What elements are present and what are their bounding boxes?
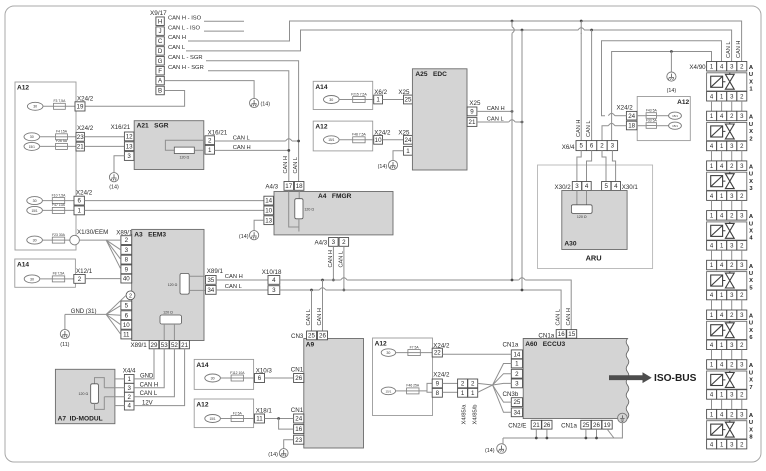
- svg-text:15/1: 15/1: [29, 145, 35, 149]
- svg-text:23: 23: [77, 134, 84, 141]
- svg-text:19: 19: [604, 422, 611, 429]
- component A12 (X24/2-10 fuse box): [313, 121, 373, 151]
- svg-text:8: 8: [125, 257, 129, 264]
- svg-text:13: 13: [126, 143, 133, 150]
- fuse F112 10A: [231, 375, 243, 381]
- pin X24/2-21: [76, 142, 84, 151]
- valve AUX7 body: [707, 371, 747, 389]
- svg-text:CAN H: CAN H: [168, 35, 186, 41]
- pin X24/2-9: [432, 379, 442, 388]
- wire A21-3 to ground: [114, 156, 124, 173]
- svg-text:16: 16: [295, 426, 302, 433]
- fuse F21 7.5A: [353, 97, 365, 103]
- svg-text:A12: A12: [17, 85, 29, 92]
- component A14 (X10/3 fuse box): [194, 359, 253, 389]
- svg-text:25: 25: [582, 422, 589, 429]
- svg-text:B: B: [158, 88, 162, 95]
- pin X9/17-A: [156, 76, 164, 85]
- svg-text:CAN L: CAN L: [586, 121, 592, 137]
- svg-text:5: 5: [605, 183, 609, 190]
- fuse F23 30A: [52, 237, 64, 243]
- svg-text:23: 23: [295, 437, 302, 444]
- pin CN3-25: [307, 331, 317, 340]
- svg-text:2: 2: [78, 276, 82, 283]
- pin X4/4-1: [124, 375, 134, 384]
- svg-text:CAN H: CAN H: [566, 308, 572, 325]
- svg-text:ISO-BUS: ISO-BUS: [654, 373, 697, 384]
- svg-text:24: 24: [405, 137, 412, 144]
- svg-text:2: 2: [342, 239, 346, 246]
- ECU block A9: [304, 339, 364, 449]
- svg-text:F10 7,5A: F10 7,5A: [52, 193, 66, 197]
- svg-text:6: 6: [590, 143, 594, 150]
- svg-text:8: 8: [436, 390, 440, 397]
- pin CN1-24: [294, 414, 304, 423]
- fuse F33 5A: [646, 123, 656, 129]
- wire: [339, 99, 374, 101]
- wire AUX6 to AUX7: [711, 350, 713, 360]
- svg-text:21: 21: [77, 144, 84, 151]
- svg-text:2: 2: [749, 136, 752, 142]
- ground (14) below EDC: [388, 160, 397, 169]
- svg-text:D: D: [158, 48, 163, 55]
- pin X9/17-D: [156, 47, 164, 56]
- svg-text:A12: A12: [196, 402, 208, 409]
- svg-text:5: 5: [749, 285, 753, 291]
- svg-text:2: 2: [461, 381, 465, 388]
- wire X6/4-6 to X30/2-4: [587, 151, 592, 182]
- valve symbol AUX1: [725, 74, 734, 89]
- valve AUX2 body: [707, 123, 747, 141]
- wire ground tap down: [670, 52, 672, 72]
- svg-text:A25 EDC: A25 EDC: [415, 71, 447, 78]
- svg-text:4: 4: [614, 183, 618, 190]
- svg-text:2: 2: [600, 143, 604, 150]
- svg-text:X4/90: X4/90: [689, 64, 706, 71]
- valve AUX4 connector top row: [707, 211, 717, 221]
- svg-text:120 Ω: 120 Ω: [577, 215, 587, 219]
- svg-text:X: X: [749, 129, 753, 135]
- svg-text:24: 24: [295, 416, 302, 423]
- pin X30/1-4: [611, 182, 620, 191]
- pin X30/2-4: [582, 182, 591, 191]
- pin X16/21-2: [205, 136, 215, 145]
- pin X89/1-53 (bottom): [159, 341, 169, 349]
- svg-text:CN1: CN1: [291, 407, 304, 414]
- pin A4/3-10: [264, 206, 274, 215]
- wire X89/1-34 to X10/18-3: [216, 289, 268, 291]
- svg-text:30: 30: [30, 135, 34, 139]
- pin CN1-16: [294, 425, 304, 434]
- module A7 ID-MODUL: [55, 369, 115, 423]
- component A12 (X24/2 24/18 fuse box, top right): [637, 97, 690, 141]
- svg-text:U: U: [749, 72, 753, 78]
- fuse F48 7.5A: [353, 137, 365, 143]
- svg-text:26: 26: [295, 375, 302, 382]
- svg-text:CAN H: CAN H: [283, 156, 289, 173]
- wire fuse to pins 9/8 split: [419, 383, 432, 391]
- wire X4/4-1 GND to X89/1-29: [134, 349, 154, 379]
- svg-text:30: 30: [386, 351, 390, 355]
- svg-text:X24/2: X24/2: [433, 372, 450, 379]
- svg-text:CAN H - ISO: CAN H - ISO: [168, 15, 202, 21]
- svg-text:CN3b: CN3b: [503, 391, 519, 398]
- pin X24/2-8: [432, 388, 442, 397]
- svg-text:CN1: CN1: [291, 367, 304, 374]
- pin CN1-26: [294, 374, 304, 383]
- valve AUX3 connector top row: [707, 161, 717, 171]
- pin X30/2-3: [572, 182, 581, 191]
- terminal 15/1: [324, 136, 340, 144]
- svg-text:3: 3: [515, 381, 519, 388]
- solenoid coil AUX3: [711, 176, 723, 187]
- resistor 120 Ohm inside A4: [298, 192, 300, 199]
- svg-text:1: 1: [406, 148, 410, 155]
- svg-text:A4/3: A4/3: [265, 184, 278, 191]
- svg-text:CAN L: CAN L: [338, 251, 344, 267]
- wire vertical CAN H (x581) top bus to X6/4-5: [580, 20, 583, 23]
- pin CN1a-3: [511, 379, 522, 388]
- pin X89/1-52 (bottom): [170, 341, 180, 349]
- wire X25-21 CAN L to bus vertical: [477, 121, 509, 123]
- wire CN1a-19 diagonal to collector: [607, 429, 614, 438]
- wire X24/2-22 to CN1a-14: [442, 353, 511, 355]
- resistor 120 Ohm inside A21: [165, 140, 205, 150]
- wire A4/3-3 (CAN H) down to bus: [332, 246, 334, 280]
- svg-text:120 Ω: 120 Ω: [79, 392, 89, 396]
- svg-text:11: 11: [256, 416, 263, 423]
- svg-text:CN1a: CN1a: [503, 342, 519, 349]
- svg-text:A12: A12: [677, 99, 689, 106]
- pin X16/21-3: [124, 152, 133, 161]
- svg-text:(14): (14): [667, 88, 677, 94]
- svg-text:3: 3: [125, 247, 129, 254]
- svg-text:4: 4: [749, 236, 753, 242]
- svg-text:40: 40: [123, 276, 130, 283]
- svg-text:18: 18: [628, 123, 635, 130]
- svg-text:X4/4: X4/4: [123, 367, 136, 374]
- ground (14) top right: [667, 72, 676, 81]
- assembly outer box ARU: [538, 165, 653, 269]
- wire CN3-26 vertical CAN H: [321, 279, 324, 282]
- svg-text:X: X: [749, 278, 753, 284]
- svg-text:F33 5A: F33 5A: [646, 119, 658, 123]
- component A12 (X18/1 fuse box): [194, 399, 253, 428]
- pin CN1a-26: [591, 420, 601, 429]
- svg-text:CN2/E: CN2/E: [508, 422, 526, 429]
- bus CAN L main: [280, 289, 320, 291]
- svg-text:5: 5: [125, 303, 129, 310]
- svg-text:15: 15: [568, 331, 575, 338]
- terminal 15/1 (row 18): [669, 122, 682, 129]
- pin X6/4-5: [576, 141, 586, 151]
- pin X9/17-H: [156, 17, 164, 26]
- svg-text:(14): (14): [378, 164, 388, 170]
- svg-text:F215 7,5A: F215 7,5A: [351, 92, 367, 96]
- svg-text:35: 35: [207, 277, 214, 284]
- svg-text:X16/21: X16/21: [208, 129, 228, 136]
- wire A4/3-2 (CAN L) down to bus: [343, 246, 345, 290]
- wire: [220, 418, 254, 420]
- valve AUX4 body: [707, 222, 747, 240]
- pin A4/3-13: [264, 216, 274, 225]
- pin X24/2-24: [626, 111, 637, 120]
- fuse F43 5A: [646, 113, 656, 119]
- pin X6/4-2: [597, 141, 607, 151]
- svg-text:U: U: [749, 221, 753, 227]
- svg-text:120 Ω: 120 Ω: [163, 311, 173, 315]
- svg-text:18: 18: [296, 183, 303, 190]
- solenoid coil AUX8: [711, 424, 723, 435]
- solenoid coil AUX4: [711, 225, 723, 236]
- pin CN1a-16: [556, 330, 566, 339]
- svg-text:30: 30: [33, 199, 37, 203]
- svg-text:CAN L - SGR: CAN L - SGR: [168, 55, 203, 61]
- svg-text:A: A: [749, 214, 754, 220]
- wire CN1-23 to ground: [284, 440, 294, 449]
- svg-text:X24/2: X24/2: [617, 105, 634, 112]
- chassis ground at A60 corner: [618, 413, 628, 423]
- pin X25-1: [404, 146, 413, 155]
- svg-text:(14): (14): [268, 452, 278, 458]
- wire CN3-25 vertical CAN L: [310, 289, 313, 292]
- svg-text:15/1: 15/1: [385, 389, 391, 393]
- svg-text:X1/30/EEM: X1/30/EEM: [77, 229, 108, 236]
- wire X6/4-5 to X30/2-3: [577, 151, 581, 182]
- pin X89/1-11: [121, 330, 132, 339]
- pin X4/4-4: [124, 401, 134, 410]
- svg-text:A4/3: A4/3: [314, 239, 327, 246]
- fuse F10 7.5A: [52, 198, 64, 204]
- pin X89/1-10: [121, 320, 132, 329]
- pin X89/1-29 (bottom): [149, 341, 159, 349]
- svg-text:4: 4: [272, 277, 276, 284]
- wire X4/4-2 to X89/1-52: [134, 349, 174, 397]
- svg-text:22: 22: [434, 350, 441, 357]
- component A12 (left fuse box): [15, 82, 76, 250]
- svg-text:A4 FMGR: A4 FMGR: [318, 193, 352, 200]
- valve AUX7 connector bottom row: [707, 390, 717, 400]
- svg-text:30: 30: [329, 98, 333, 102]
- valve AUX1 connector top row: [707, 62, 717, 72]
- svg-text:(14): (14): [109, 184, 119, 190]
- terminal 30: [381, 349, 395, 357]
- svg-text:1: 1: [515, 361, 519, 368]
- svg-text:24: 24: [628, 113, 635, 120]
- terminal 15/1 (row3): [24, 142, 40, 150]
- svg-text:X: X: [749, 328, 753, 334]
- svg-text:X25: X25: [469, 100, 481, 107]
- wire CAN L - ISO stub: [204, 30, 244, 32]
- svg-text:F3 7,5A: F3 7,5A: [53, 99, 66, 103]
- wire X24/2-10 to X25-24: [383, 139, 404, 141]
- svg-text:120 Ω: 120 Ω: [168, 283, 178, 287]
- svg-text:A14: A14: [315, 84, 327, 91]
- svg-text:CAN H: CAN H: [225, 274, 243, 280]
- svg-text:X4/85/b: X4/85/b: [472, 405, 478, 425]
- pin CN1a-25: [581, 420, 591, 429]
- svg-text:15/1: 15/1: [31, 209, 37, 213]
- svg-text:A60 ECCU3: A60 ECCU3: [525, 341, 565, 348]
- svg-text:14: 14: [265, 198, 272, 205]
- pin CN1a-19: [602, 420, 612, 429]
- svg-text:U: U: [749, 271, 753, 277]
- svg-text:X4/85/a: X4/85/a: [462, 404, 468, 425]
- wire X4/4 stubs into A7: [115, 378, 125, 380]
- svg-text:6: 6: [749, 335, 753, 341]
- fuse F46 25A: [407, 388, 419, 394]
- wire X24/2-1 to A4-10: [84, 209, 264, 211]
- pin X6/2-1: [374, 95, 383, 104]
- pin CN1a-14: [511, 350, 522, 359]
- pin X10/18-4: [268, 276, 280, 285]
- svg-text:2: 2: [129, 294, 132, 300]
- valve AUX5 connector bottom row: [707, 290, 717, 300]
- svg-text:X30/2: X30/2: [555, 184, 572, 191]
- wire row4: [42, 200, 74, 202]
- pin X24/2-23: [76, 132, 84, 141]
- valve AUX5 body: [707, 272, 747, 290]
- valve AUX2 connector bottom row: [707, 141, 717, 151]
- wire X24/2-8 to X4/85: [442, 391, 457, 393]
- pin X9/17-G: [156, 57, 164, 66]
- svg-text:15/1: 15/1: [672, 114, 678, 118]
- pin X4/4-2: [124, 392, 134, 401]
- pin X89/1-8: [121, 255, 132, 264]
- svg-text:A30: A30: [564, 240, 576, 247]
- fuse F3 7.5A: [54, 103, 66, 109]
- fuse F26 5A: [56, 143, 68, 149]
- wire X1/30/EEM to X89/1-2 with fan: [79, 239, 121, 241]
- svg-text:F4 15A: F4 15A: [56, 130, 68, 134]
- svg-text:CAN L: CAN L: [556, 309, 562, 325]
- svg-text:21: 21: [181, 342, 188, 349]
- svg-text:A12: A12: [315, 124, 327, 131]
- svg-text:A: A: [749, 65, 754, 71]
- svg-text:1: 1: [127, 376, 131, 383]
- svg-text:U: U: [749, 321, 753, 327]
- wire GND down: [64, 314, 66, 329]
- pin X4/85/a-1: [458, 388, 468, 397]
- svg-text:X9/17: X9/17: [150, 10, 167, 17]
- svg-text:25: 25: [308, 333, 315, 340]
- valve AUX2 connector top row: [707, 111, 717, 121]
- terminal 30: [205, 374, 221, 382]
- wire X24/2-23 to A21-12: [84, 136, 124, 138]
- wire X10/3-6 to CN1-26: [265, 377, 294, 379]
- terminal 30 (row1): [27, 102, 43, 110]
- svg-text:(11): (11): [60, 342, 69, 348]
- svg-text:17: 17: [285, 183, 292, 190]
- wire X4/85 fan to CN1a/CN3b pins: [478, 383, 493, 385]
- svg-text:F8 7,5A: F8 7,5A: [53, 272, 66, 276]
- svg-text:16: 16: [558, 331, 565, 338]
- wire fan to pins 3,8,9: [106, 240, 121, 250]
- terminal 15/1: [381, 387, 395, 395]
- wire X24/2-18 to X6/4-2: [615, 125, 627, 127]
- pin X9/17-J: [156, 27, 164, 35]
- svg-text:CAN H - SGR: CAN H - SGR: [168, 65, 204, 71]
- wire X24/2-9 to X4/85: [442, 382, 457, 384]
- pin X16/21-1: [205, 145, 215, 154]
- pin X10/18-3: [268, 286, 280, 295]
- svg-text:4: 4: [585, 183, 589, 190]
- wire X6/4-3 to X30/1-4: [612, 151, 615, 182]
- svg-text:A14: A14: [196, 362, 208, 369]
- wire X4/90-1 to X6/4-3 with ground tap: [612, 52, 712, 141]
- wire: [339, 139, 374, 141]
- wire CAN H: X9/17-C to top bus, east to X4/90 pin2: [188, 21, 742, 62]
- wire X9/17-B to X24/2-19: [85, 91, 185, 107]
- svg-text:A: A: [749, 264, 754, 270]
- fuse F8 7.5A: [52, 276, 64, 282]
- svg-text:X: X: [749, 229, 753, 235]
- svg-text:A9: A9: [306, 341, 315, 348]
- ECU block A4 FMGR: [274, 192, 393, 235]
- svg-text:15/1: 15/1: [209, 417, 215, 421]
- svg-text:CAN L: CAN L: [726, 42, 732, 58]
- terminal 30: [324, 96, 340, 104]
- valve symbol AUX8: [725, 422, 734, 437]
- svg-text:A: A: [749, 164, 754, 170]
- wire X24/2-21 to A21-13: [84, 145, 124, 147]
- svg-text:A: A: [749, 314, 754, 320]
- resistor 120 Ohm lower inside A3: [160, 315, 182, 324]
- pin X25-24: [404, 135, 413, 144]
- wire row3: [40, 145, 76, 147]
- svg-text:15/1: 15/1: [328, 138, 334, 142]
- svg-text:H: H: [158, 18, 162, 25]
- ground (14) below A9: [279, 449, 288, 458]
- valve symbol AUX2: [725, 124, 734, 139]
- svg-text:2: 2: [127, 394, 131, 401]
- valve symbol AUX5: [725, 273, 734, 288]
- wire collector to ground: [502, 438, 504, 444]
- svg-text:21: 21: [533, 422, 540, 429]
- svg-text:X89/1: X89/1: [207, 268, 224, 275]
- wire CAN H - SGR: X9/17-F down to A21/A4: [208, 71, 289, 182]
- svg-text:A3 EEM3: A3 EEM3: [134, 231, 166, 238]
- component A12 (X24/2 22/9/8 fuse box): [373, 338, 433, 416]
- svg-text:G: G: [158, 58, 163, 65]
- wire: [396, 352, 433, 354]
- svg-text:120 Ω: 120 Ω: [179, 156, 189, 160]
- wire X24/2-6 to A4-14: [84, 200, 264, 202]
- svg-text:J: J: [159, 28, 162, 35]
- wire AUX7 to AUX8: [711, 399, 713, 409]
- ECU block A60 ECCU3 (torn right edge): [523, 339, 629, 419]
- pin X89/1-5: [121, 301, 132, 310]
- svg-text:A7 ID-MODUL: A7 ID-MODUL: [58, 416, 103, 423]
- pin X24/2-1: [74, 206, 84, 215]
- wire A4-13 to ground: [254, 220, 264, 230]
- svg-text:X89/1: X89/1: [131, 342, 148, 349]
- resistor 120 Ohm inside A7: [95, 378, 105, 388]
- wire row5: [42, 209, 74, 211]
- valve AUX8 body: [707, 421, 747, 439]
- ISO-BUS arrow: [609, 372, 652, 383]
- svg-text:30: 30: [33, 105, 37, 109]
- svg-text:26: 26: [593, 422, 600, 429]
- pin X89/1-34: [206, 286, 217, 295]
- valve AUX1 body: [707, 73, 747, 91]
- pin CN1a-15: [567, 330, 577, 339]
- valve AUX5 connector top row: [707, 260, 717, 270]
- svg-text:30: 30: [30, 277, 34, 281]
- svg-text:A14: A14: [17, 262, 29, 269]
- pin X16/21-12: [124, 132, 133, 141]
- component A14 (X6/2 fuse box): [313, 81, 373, 109]
